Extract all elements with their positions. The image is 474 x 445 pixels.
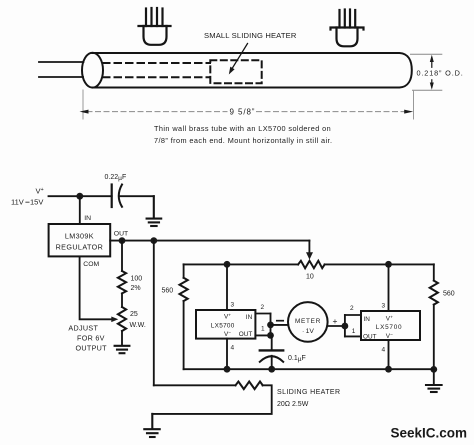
heater connector H2 body bbox=[337, 28, 358, 47]
dashed sensor line 2 inside tube bbox=[103, 76, 210, 78]
svg-text:0.22µF: 0.22µF bbox=[105, 174, 127, 182]
svg-text:V−: V− bbox=[386, 333, 393, 340]
svg-text:OUT: OUT bbox=[239, 331, 253, 338]
wire down to IN pin bbox=[79, 196, 81, 224]
resistor R6 sliding heater bbox=[152, 382, 271, 414]
wire heater feed (OUT down to sliding heater) bbox=[153, 241, 155, 386]
sensor U2 text bbox=[211, 314, 253, 338]
dimension 9 5/8 arrowheads bbox=[80, 110, 414, 114]
svg-text:3: 3 bbox=[382, 303, 386, 310]
svg-text:REGULATOR: REGULATOR bbox=[56, 243, 104, 252]
svg-text:OUT: OUT bbox=[114, 231, 128, 238]
label 10 bbox=[306, 274, 314, 281]
meter M1 text bbox=[295, 318, 321, 335]
svg-text:IN: IN bbox=[84, 215, 91, 222]
wire R1 to R2 bbox=[121, 293, 123, 307]
capacitor C2 0.1uF bbox=[260, 335, 283, 369]
wire V+ input bbox=[49, 195, 112, 197]
dash between 11V and 15V bbox=[26, 201, 29, 203]
regulator U1 LM309K box bbox=[49, 224, 111, 256]
wire pin3 U2 bbox=[226, 264, 228, 310]
heater connector H2 flange bbox=[331, 28, 364, 30]
resistor R3 560 (left) bbox=[180, 264, 188, 369]
svg-text:+: + bbox=[333, 316, 338, 326]
svg-text:25: 25 bbox=[130, 311, 138, 318]
svg-text:METER: METER bbox=[295, 318, 321, 325]
meter M1 circle bbox=[288, 302, 328, 342]
label 0.1uF bbox=[288, 355, 306, 363]
label COM bbox=[83, 261, 99, 268]
svg-text:1: 1 bbox=[352, 328, 356, 335]
label 0.22uF bbox=[105, 174, 127, 182]
svg-text:LM309K: LM309K bbox=[65, 232, 94, 241]
wire lead 1 (left) bbox=[39, 61, 83, 63]
wires pins 2/1 U3 from meter bar bbox=[345, 315, 361, 336]
heater connector H1 flange bbox=[139, 25, 171, 27]
svg-text:LX5700: LX5700 bbox=[376, 324, 403, 331]
dimension 9 5/8 extension line left bbox=[82, 90, 84, 119]
svg-text:Thin wall brass tube with an L: Thin wall brass tube with an LX5700 sold… bbox=[154, 124, 331, 133]
junction dot top rail / pin3 U3 bbox=[385, 261, 392, 268]
label 100 2% bbox=[131, 276, 143, 293]
svg-text:3: 3 bbox=[231, 302, 235, 309]
sensor U3 LX5700 box bbox=[361, 311, 420, 340]
label 9 5/8 bbox=[230, 108, 256, 117]
junction dot top rail / pin3 U2 bbox=[224, 261, 231, 268]
svg-text:9 5/8”: 9 5/8” bbox=[230, 108, 256, 117]
wire bottom rail bbox=[184, 368, 434, 370]
junction dot OUT/R1 bbox=[119, 237, 126, 244]
sensor U2 LX5700 box bbox=[196, 310, 255, 339]
svg-text:OUT: OUT bbox=[363, 333, 377, 340]
label 0.218 O.D. bbox=[417, 69, 464, 78]
wire pin3 U3 bbox=[388, 264, 390, 311]
svg-text:560: 560 bbox=[443, 291, 455, 298]
wiper arrow into R4 bbox=[306, 241, 313, 260]
junction dot input/IN bbox=[76, 193, 83, 200]
label 11V 15V bbox=[11, 198, 43, 207]
svg-text:1: 1 bbox=[261, 326, 265, 333]
svg-text:V+: V+ bbox=[386, 316, 393, 323]
pin label 1 (U3) bbox=[352, 328, 356, 335]
label SMALL SLIDING HEATER bbox=[204, 31, 297, 40]
svg-text:11V: 11V bbox=[11, 198, 24, 207]
svg-text:W.W.: W.W. bbox=[130, 322, 146, 329]
label 560 right bbox=[443, 291, 455, 298]
wire R2 to ground bbox=[121, 331, 123, 346]
pin label 4 (U2) bbox=[231, 345, 235, 352]
wire lead 2 (left) bbox=[39, 76, 83, 78]
label minus bbox=[277, 320, 283, 322]
junction dot OUT/heater feed bbox=[150, 237, 157, 244]
small sliding heater dashed box bbox=[210, 60, 261, 83]
junction dot pin1/C2 bbox=[267, 332, 274, 339]
pin label 1 (U2) bbox=[261, 326, 265, 333]
svg-text:FOR 6V: FOR 6V bbox=[77, 334, 105, 343]
caption line 1 bbox=[154, 124, 331, 133]
heater connector H1 pins bbox=[146, 8, 163, 26]
sensor U3 text bbox=[363, 316, 402, 341]
wires pins 2/1 U2 to meter bar bbox=[255, 314, 270, 336]
pin label 2 (U3) bbox=[350, 305, 354, 312]
svg-text:IN: IN bbox=[246, 314, 253, 321]
svg-text:SMALL SLIDING HEATER: SMALL SLIDING HEATER bbox=[204, 31, 297, 40]
wire top rail right of R4 bbox=[325, 263, 434, 265]
wire pin4 U3 bbox=[388, 340, 390, 369]
wire meter right bbox=[327, 325, 345, 327]
svg-text:4: 4 bbox=[231, 345, 235, 352]
label OUT bbox=[114, 231, 128, 238]
svg-text:COM: COM bbox=[83, 261, 99, 268]
tube left end ellipse bbox=[82, 53, 103, 88]
rheostat R2 25 W.W. bbox=[118, 307, 126, 331]
svg-text:4: 4 bbox=[382, 347, 386, 354]
svg-text:IN: IN bbox=[364, 316, 371, 323]
svg-text:2: 2 bbox=[350, 305, 354, 312]
potentiometer R4 10 bbox=[298, 261, 325, 268]
svg-text:OUTPUT: OUTPUT bbox=[76, 344, 108, 353]
svg-text:0.218” O.D.: 0.218” O.D. bbox=[417, 69, 464, 78]
svg-text:560: 560 bbox=[162, 288, 174, 295]
svg-text:2: 2 bbox=[261, 304, 265, 311]
dimension 9 5/8 extension line right bbox=[413, 91, 415, 120]
svg-text:ADJUST: ADJUST bbox=[68, 324, 98, 333]
label IN bbox=[84, 215, 91, 222]
label plus bbox=[333, 316, 338, 326]
svg-text:SeekIC.com: SeekIC.com bbox=[391, 426, 468, 441]
watermark SeekIC.com bbox=[391, 426, 468, 441]
wiper arrow COM to R2 bbox=[111, 317, 118, 323]
dashed sensor line 1 inside tube bbox=[103, 62, 210, 64]
svg-text:100: 100 bbox=[131, 276, 143, 283]
svg-text:20Ω 2.5W: 20Ω 2.5W bbox=[277, 401, 309, 408]
svg-text:V+: V+ bbox=[36, 187, 44, 196]
svg-text:V−: V− bbox=[224, 331, 231, 338]
regulator U1 text bbox=[56, 232, 104, 252]
dimension 0.218 O.D. extension lines bbox=[411, 54, 442, 90]
brass tube body bbox=[93, 53, 412, 88]
wire top rail of bridge bbox=[184, 263, 299, 265]
dimension 9 5/8 line bbox=[87, 111, 409, 113]
junction dot meter tap left bbox=[267, 322, 274, 329]
junction dot rail/pin4 U3 bbox=[385, 366, 392, 373]
wire meter left bbox=[271, 324, 289, 326]
leader arrow to dashed box bbox=[229, 44, 248, 75]
label 25 W.W. bbox=[130, 311, 146, 329]
wire COM bbox=[80, 256, 112, 319]
dimension 0.218 O.D. arrows bbox=[430, 55, 434, 90]
svg-text:SLIDING HEATER: SLIDING HEATER bbox=[277, 389, 340, 396]
junction dot rail/R5/ground bbox=[430, 366, 437, 373]
svg-text:V+: V+ bbox=[224, 314, 231, 321]
pin label 2 (U2) bbox=[261, 304, 265, 311]
ground G1 (C1) bbox=[147, 196, 162, 226]
pin label 3 (U2) bbox=[231, 302, 235, 309]
wire pin4 U2 bbox=[226, 339, 228, 370]
svg-text:0.1µF: 0.1µF bbox=[288, 355, 306, 363]
pin label 4 (U3) bbox=[382, 347, 386, 354]
heater connector H2 pins bbox=[340, 10, 356, 28]
junction dot rail/pin4 U2 bbox=[224, 366, 231, 373]
resistor R1 100 2% bbox=[118, 271, 126, 293]
caption line 2 bbox=[154, 136, 332, 145]
junction dot meter tap right bbox=[342, 323, 349, 330]
svg-text:LX5700: LX5700 bbox=[211, 322, 235, 329]
pin label 3 (U3) bbox=[382, 303, 386, 310]
svg-text:15V: 15V bbox=[30, 198, 43, 207]
ground G4 (bottom left) bbox=[144, 414, 159, 437]
label ADJUST FOR 6V OUTPUT bbox=[68, 324, 107, 353]
svg-text:7/8” from each end. Mount hori: 7/8” from each end. Mount horizontally i… bbox=[154, 136, 332, 145]
label 560 left bbox=[162, 288, 174, 295]
wire OUT to R1 bbox=[121, 241, 123, 271]
svg-text:2%: 2% bbox=[131, 285, 141, 292]
node V+ label bbox=[36, 187, 44, 196]
heater connector H1 body bbox=[144, 26, 167, 45]
ground G3 (right) bbox=[426, 385, 442, 392]
capacitor C1 0.22uF bbox=[112, 185, 154, 208]
ground G2 (R2) bbox=[115, 346, 130, 353]
label SLIDING HEATER 20ohm 2.5W bbox=[277, 389, 340, 408]
svg-text:· 1V: · 1V bbox=[302, 328, 314, 335]
resistor R5 560 (right) bbox=[430, 264, 438, 384]
junction dot rail/C2 bbox=[268, 366, 275, 373]
svg-text:10: 10 bbox=[306, 274, 314, 281]
wire OUT rail bbox=[110, 240, 309, 242]
